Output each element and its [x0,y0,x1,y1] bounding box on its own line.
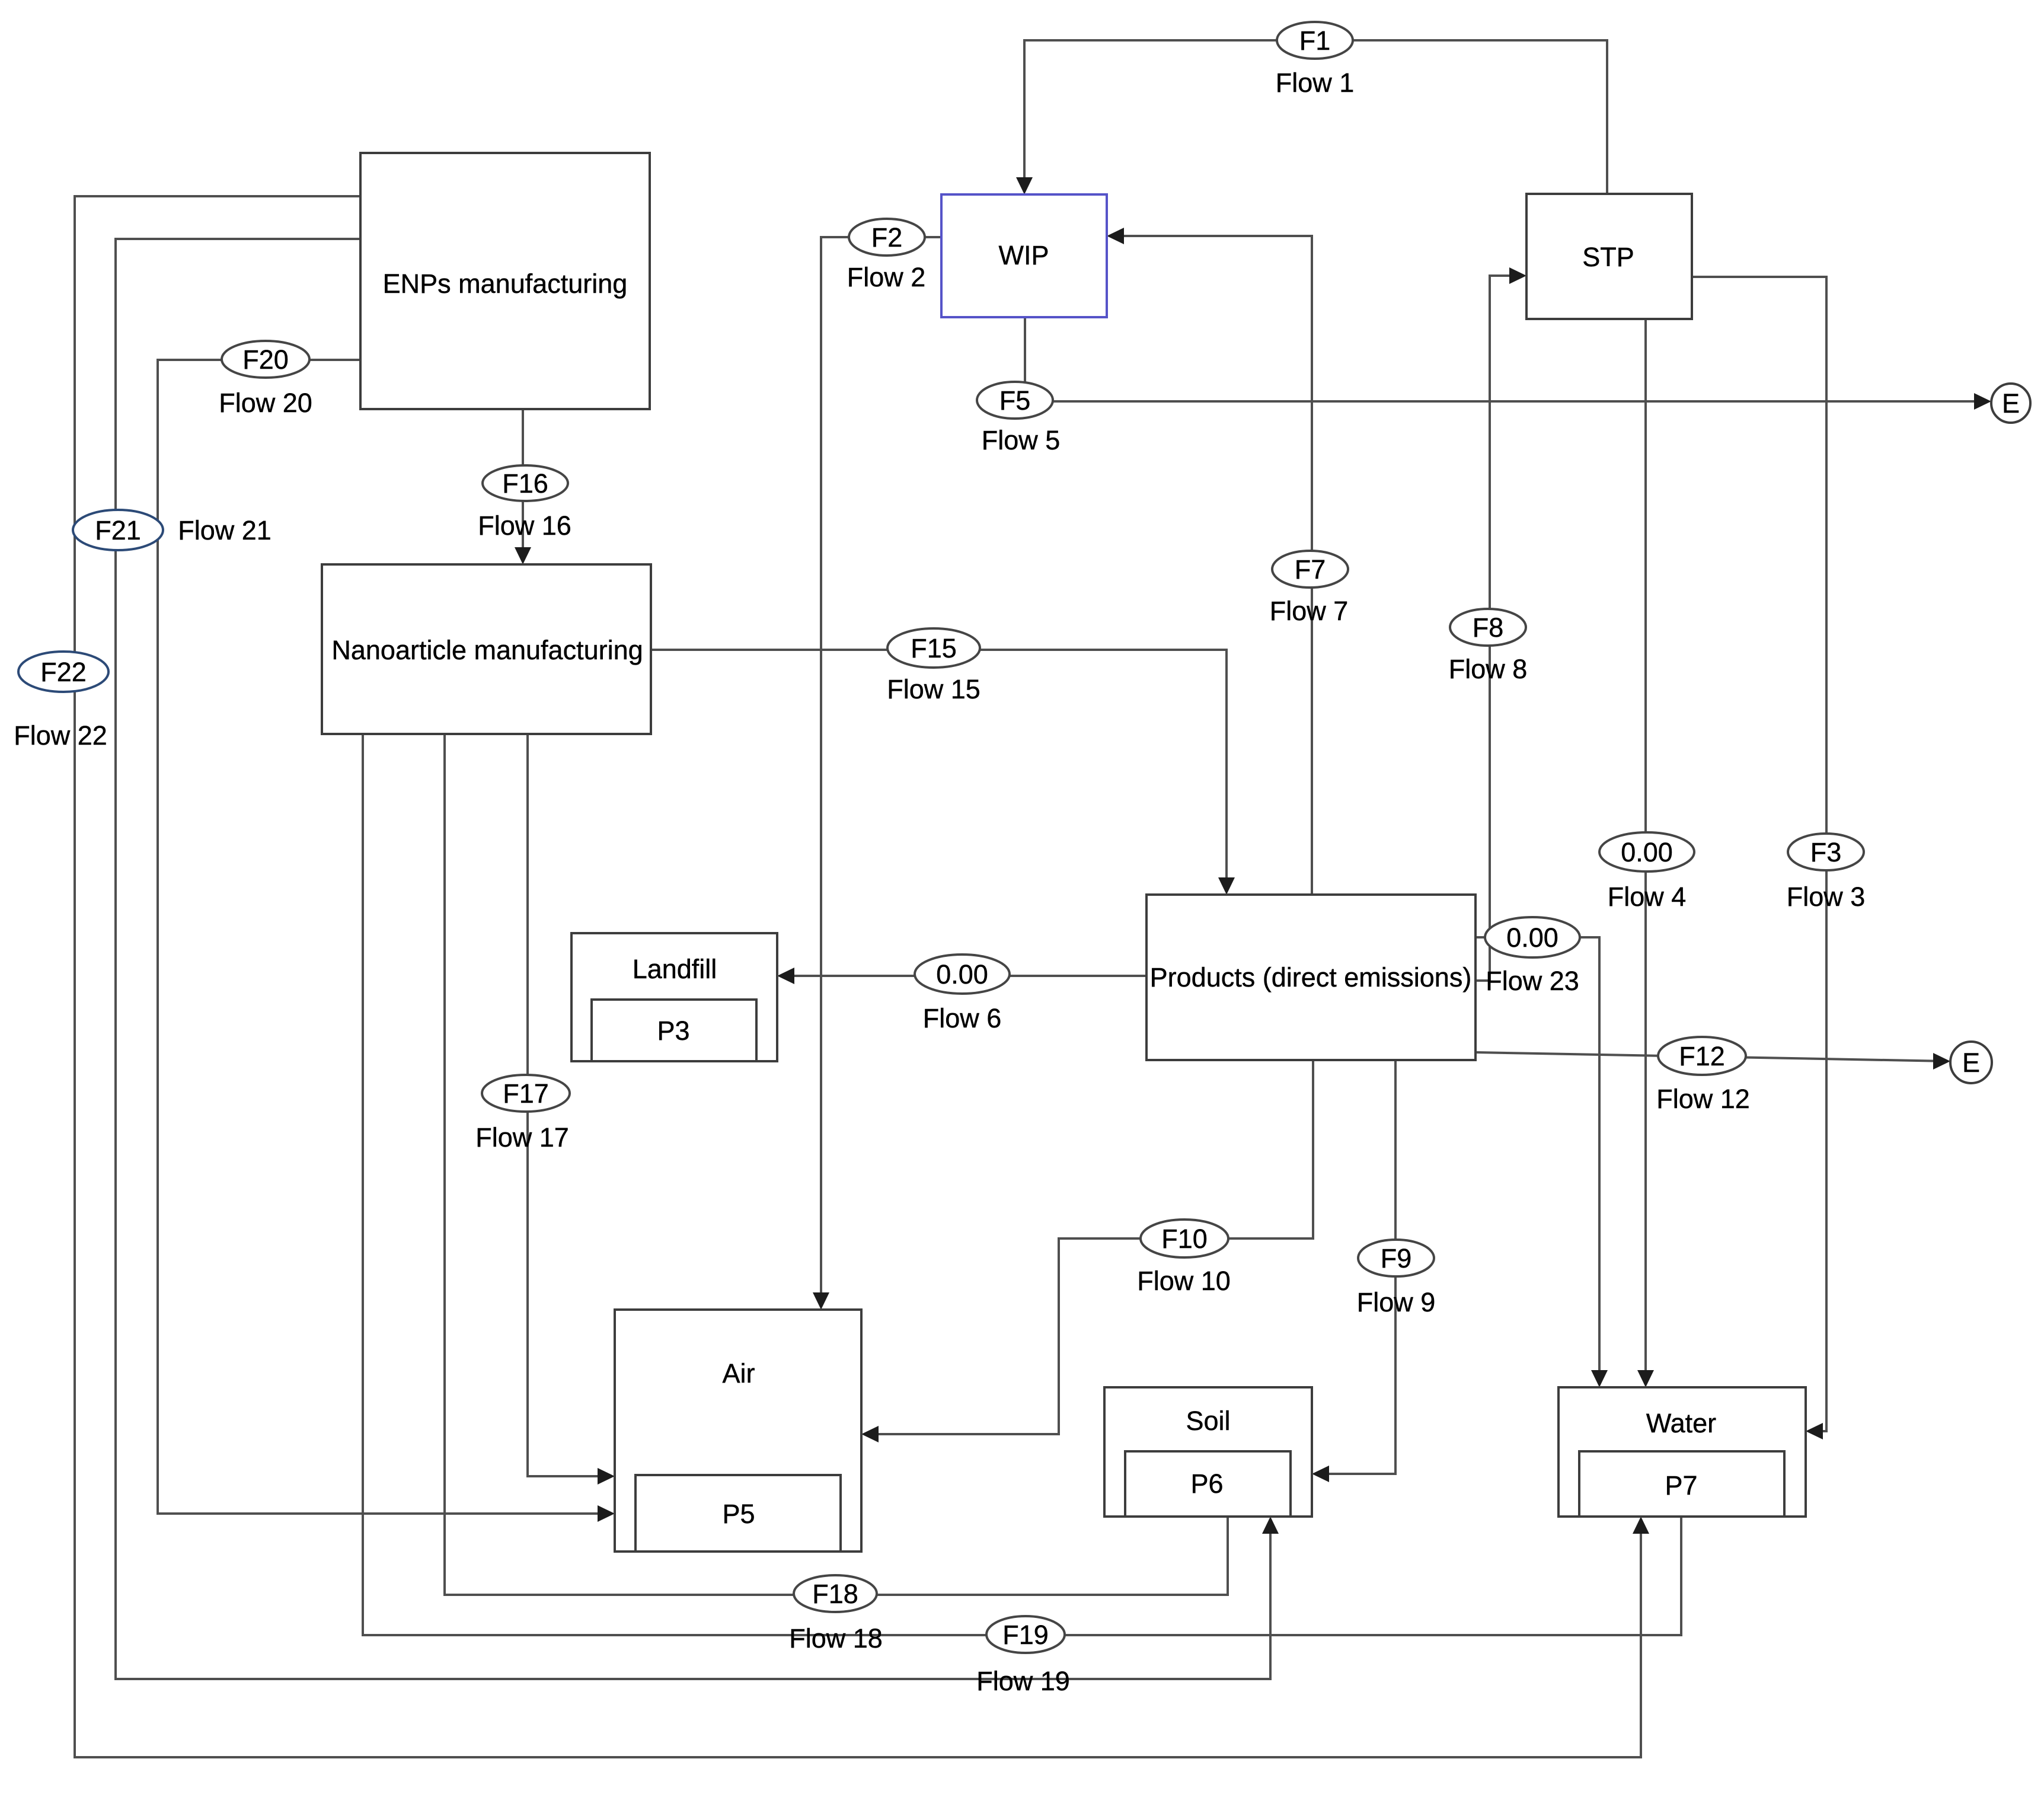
svg-text:F20: F20 [242,344,289,375]
label STP [1582,242,1634,272]
svg-text:Flow 19: Flow 19 [976,1666,1070,1696]
label F1 [1299,25,1331,56]
svg-text:Flow 17: Flow 17 [475,1122,569,1153]
label Flow 2 [847,262,926,292]
label Flow 4 [1608,882,1687,912]
flow ellipse 0.00 Flow4 [1599,832,1694,872]
label F12 [1679,1041,1725,1071]
label 0.00 Flow6 [936,959,988,989]
svg-text:Flow 8: Flow 8 [1449,654,1528,684]
flow ellipse F15 [887,628,980,668]
svg-text:Flow 10: Flow 10 [1137,1266,1231,1296]
svg-text:P5: P5 [722,1499,755,1529]
svg-text:F18: F18 [812,1579,858,1609]
arrowhead Flow4 into Water top [1637,1370,1654,1387]
arrowhead into Nanoarticle top [515,547,531,564]
arrowhead F22 into P7 bottom [1633,1517,1649,1534]
label P5 [722,1499,755,1529]
flow ellipse F12 [1658,1037,1746,1075]
label Air [723,1358,755,1388]
arrowhead into WIP right [1107,228,1124,244]
label 0.00 Flow4 [1621,837,1673,867]
svg-text:0.00: 0.00 [936,959,988,989]
wire F15 Nanoarticle to Products [651,650,1227,890]
box P7 [1579,1451,1784,1517]
svg-text:F15: F15 [911,633,957,663]
label 0.00 Flow23 [1506,922,1558,953]
wire F21 ENPs to Soil [116,239,1270,1679]
label Flow 15 [887,674,981,704]
svg-text:P7: P7 [1665,1470,1697,1501]
svg-text:Nanoarticle manufacturing: Nanoarticle manufacturing [331,635,643,665]
label Flow 19 [976,1666,1070,1696]
arrowhead F17 into Air left [598,1468,615,1485]
label Water [1646,1408,1716,1438]
flow ellipse F1 [1277,22,1353,59]
flow ellipse F21 [73,510,163,550]
label F18 [812,1579,858,1609]
arrowhead into Air top [813,1292,829,1310]
svg-text:Flow 21: Flow 21 [178,515,272,545]
svg-text:F3: F3 [1810,837,1842,867]
flow ellipse F7 [1272,551,1348,588]
wire F12 Products to E [1475,1052,1947,1061]
box Products (direct emissions) [1146,895,1475,1060]
arrowhead Flow23 into Water top [1591,1370,1608,1387]
svg-text:Flow 1: Flow 1 [1276,68,1355,98]
label Flow 23 [1486,966,1579,996]
label F3 [1810,837,1842,867]
node E2 [1950,1042,1992,1083]
box Air [615,1310,861,1552]
label Flow 18 [789,1623,883,1653]
label F19 [1002,1620,1049,1650]
label P6 [1190,1469,1223,1499]
label Flow 20 [219,388,312,418]
box WIP [941,194,1107,317]
flow ellipse F16 [483,465,568,501]
arrowhead into Landfill right [777,968,794,984]
arrowhead F21 into P6 bottom [1262,1517,1279,1534]
wire F5 WIP to E [1025,317,1987,401]
label Flow 9 [1357,1287,1436,1317]
label Flow 7 [1270,596,1349,626]
label Products (direct emissions) [1150,962,1472,992]
arrowhead F3 into Water right [1806,1423,1823,1439]
box STP [1526,194,1692,319]
label Flow 21 [178,515,272,545]
wire F8 Products to STP [1475,276,1522,981]
node E1 [1991,384,2030,423]
flow ellipse F2 [849,219,925,256]
svg-text:Flow 18: Flow 18 [789,1623,883,1653]
flow ellipse F19 [986,1616,1065,1653]
svg-text:Flow 23: Flow 23 [1486,966,1579,996]
box P5 [635,1475,841,1552]
svg-text:F10: F10 [1161,1224,1208,1254]
label F8 [1473,612,1504,643]
wire F7 Products to WIP [1111,236,1312,895]
label F7 [1295,554,1326,585]
svg-text:F17: F17 [503,1078,549,1109]
box Soil [1104,1387,1312,1517]
svg-text:P6: P6 [1190,1469,1223,1499]
svg-text:F16: F16 [502,468,548,499]
wire F1 STP to WIP [1024,40,1607,194]
svg-text:F21: F21 [95,515,141,545]
svg-text:STP: STP [1582,242,1634,272]
label Flow 3 [1787,882,1866,912]
svg-text:Flow 7: Flow 7 [1270,596,1349,626]
flow ellipse F3 [1788,834,1864,870]
box ENPs manufacturing [360,153,650,409]
label F10 [1161,1224,1208,1254]
svg-text:WIP: WIP [999,240,1049,270]
wire Flow23 Products to Water [1475,937,1599,1383]
label F22 [40,657,87,687]
arrowhead F20 into Air left [598,1505,615,1522]
label F15 [911,633,957,663]
arrowhead into WIP top [1016,177,1033,194]
svg-text:Flow 22: Flow 22 [14,720,107,751]
wire F19 Nanoarticle to Water [363,734,1681,1635]
box P6 [1125,1451,1291,1517]
arrowhead F10 into Air right [861,1426,879,1442]
svg-text:0.00: 0.00 [1621,837,1673,867]
svg-text:F5: F5 [999,385,1031,416]
wire Flow6 Products to Landfill [781,975,1146,977]
label Flow 16 [478,510,571,541]
svg-text:Water: Water [1646,1408,1716,1438]
label Flow 10 [1137,1266,1231,1296]
arrowhead into Products top [1218,877,1235,895]
svg-text:F19: F19 [1002,1620,1049,1650]
label Flow 12 [1656,1084,1750,1114]
svg-text:F2: F2 [871,222,903,253]
svg-text:ENPs manufacturing: ENPs manufacturing [383,269,628,299]
flow ellipse F20 [222,341,309,378]
flow ellipse 0.00 Flow6 [915,955,1010,994]
label F17 [503,1078,549,1109]
arrowhead F9 into Soil right [1312,1466,1329,1482]
svg-text:Soil: Soil [1186,1406,1230,1436]
svg-text:Flow 3: Flow 3 [1787,882,1866,912]
svg-text:Flow 16: Flow 16 [478,510,571,541]
flow ellipse F10 [1141,1220,1228,1257]
label E2 [1962,1048,1980,1078]
svg-text:Flow 20: Flow 20 [219,388,312,418]
wire F9 Products to Soil [1316,1060,1395,1474]
label Flow 1 [1276,68,1355,98]
label Nanoarticle manufacturing [331,635,643,665]
label WIP [999,240,1049,270]
svg-text:Landfill: Landfill [633,954,717,984]
svg-text:Flow 9: Flow 9 [1357,1287,1436,1317]
svg-text:Flow 5: Flow 5 [982,425,1061,455]
label Flow 22 [14,720,107,751]
box Nanoarticle manufacturing [322,564,651,734]
wire F18 Nanoarticle to Soil [445,734,1228,1595]
wire F2 WIP to Air [821,237,941,1305]
flow ellipse F5 [977,382,1053,419]
wire F17 Nanoarticle to Air [528,734,611,1476]
label F20 [242,344,289,375]
label Flow 6 [923,1003,1002,1033]
svg-text:F12: F12 [1679,1041,1725,1071]
wire F20 ENPs to Air [158,360,611,1514]
arrowhead into STP left [1509,267,1526,284]
svg-text:0.00: 0.00 [1506,922,1558,953]
label F2 [871,222,903,253]
svg-text:Flow 2: Flow 2 [847,262,926,292]
arrowhead F5 into E1 [1974,393,1991,410]
flow ellipse 0.00 Flow23 [1485,917,1580,957]
label E1 [2002,388,2020,419]
flow ellipse F22 [18,652,108,692]
wire F22 ENPs to Water [75,196,1641,1757]
svg-text:F7: F7 [1295,554,1326,585]
wire F10 Products to Air [865,1060,1313,1434]
label F9 [1381,1243,1412,1273]
svg-text:F9: F9 [1381,1243,1412,1273]
label Flow 8 [1449,654,1528,684]
box P3 [592,1000,756,1061]
box Landfill [571,933,777,1061]
label F5 [999,385,1031,416]
svg-text:P3: P3 [657,1016,689,1046]
label Soil [1186,1406,1230,1436]
flow ellipse F8 [1450,609,1526,646]
label Flow 17 [475,1122,569,1153]
svg-text:Flow 6: Flow 6 [923,1003,1002,1033]
wire Flow4 STP to Water [1644,319,1647,1383]
svg-text:Flow 12: Flow 12 [1656,1084,1750,1114]
svg-text:F8: F8 [1473,612,1504,643]
label Landfill [633,954,717,984]
arrowhead F12 into E2 [1933,1053,1950,1070]
svg-text:E: E [2002,388,2020,419]
svg-text:F22: F22 [40,657,87,687]
label ENPs manufacturing [383,269,628,299]
label F16 [502,468,548,499]
svg-text:Air: Air [723,1358,755,1388]
svg-text:F1: F1 [1299,25,1331,56]
flow ellipse F9 [1358,1240,1434,1276]
label P7 [1665,1470,1697,1501]
wire F3 STP to Water [1692,277,1826,1431]
wire F16 ENPs to Nanoarticle [522,409,524,560]
label P3 [657,1016,689,1046]
flow ellipse F18 [794,1575,877,1612]
box Water [1558,1387,1806,1517]
label Flow 5 [982,425,1061,455]
flow ellipse F17 [482,1075,570,1112]
svg-text:E: E [1962,1048,1980,1078]
svg-text:Flow 15: Flow 15 [887,674,981,704]
svg-text:Flow 4: Flow 4 [1608,882,1687,912]
svg-text:Products (direct emissions): Products (direct emissions) [1150,962,1472,992]
label F21 [95,515,141,545]
